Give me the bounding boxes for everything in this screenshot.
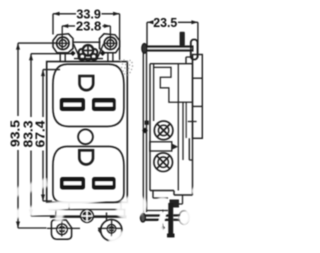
watermark streak B left (112, 226, 163, 246)
receptacle body front view (47, 62, 128, 203)
ground hole upper (80, 76, 94, 90)
dimension 33.9 (53, 7, 120, 60)
side view right ear tab (191, 40, 198, 60)
svg-text:23.8: 23.8 (76, 19, 102, 33)
side view back panel (189, 55, 202, 161)
wire clamp (142, 128, 178, 152)
dimension 83.3 (22, 54, 74, 216)
center screw hole (78, 129, 93, 144)
top mounting ear left (53, 34, 73, 53)
slot lower-left (60, 177, 85, 190)
dimension 93.5 (9, 43, 57, 228)
side view top tab (180, 32, 185, 46)
bottom center screw (81, 210, 94, 223)
watermark streak C (4, 182, 48, 196)
watermark blob ear right (106, 228, 132, 250)
ground hole lower (79, 150, 93, 164)
terminal screw lower (154, 153, 173, 172)
watermark blob between views (112, 191, 150, 224)
watermark streak A (10, 196, 104, 215)
slot upper-left (60, 98, 85, 111)
side view bottom hardware (141, 191, 190, 238)
watermark blob strap gap (54, 209, 64, 222)
watermark streak B right (181, 183, 226, 222)
diamond hole right (100, 51, 105, 56)
dimension 23.8 (62, 19, 111, 50)
dimension 23.5 (147, 16, 198, 58)
bottom mounting ear right (98, 219, 123, 241)
terminal screw upper (154, 121, 173, 140)
svg-text:67.4: 67.4 (33, 120, 47, 147)
slot lower-right (92, 177, 116, 190)
ear neck right (108, 53, 113, 62)
ear neck left (60, 53, 65, 62)
side view body (145, 55, 197, 205)
svg-text:23.5: 23.5 (153, 16, 177, 30)
keyhole mounting slot (79, 45, 98, 60)
outlet face upper (53, 64, 124, 126)
side view strap edge (143, 52, 146, 213)
bottom strap (49, 202, 127, 220)
bottom mounting ear left (47, 220, 80, 240)
watermark blob body corner (191, 187, 201, 195)
top mounting ear right (100, 34, 120, 53)
diamond hole left (70, 51, 75, 56)
slot upper-right (92, 98, 116, 111)
side view strap bar (142, 44, 194, 54)
top strap plate (73, 42, 104, 58)
outlet face lower (53, 146, 124, 202)
watermark blob elbow (158, 197, 168, 205)
shading speckle top right (120, 59, 133, 75)
dimension 67.4 (33, 70, 60, 201)
